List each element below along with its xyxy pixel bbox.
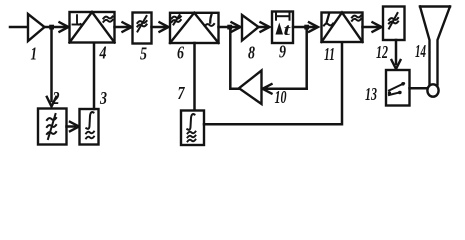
- svg-text:7: 7: [178, 83, 186, 103]
- svg-text:8: 8: [248, 43, 255, 63]
- svg-text:13: 13: [365, 84, 377, 104]
- svg-text:9: 9: [279, 42, 286, 62]
- wire 5 to 6: [152, 22, 169, 31]
- feedback wire to amp 10: [264, 88, 307, 91]
- wire 13 to CRT: [410, 87, 429, 90]
- svg-text:12: 12: [376, 42, 388, 62]
- svg-text:2: 2: [52, 88, 60, 108]
- feedback amplifier 10: [239, 71, 287, 108]
- arrowhead into 2: [47, 97, 56, 107]
- junction before amp 8: [227, 25, 232, 30]
- block 2: [38, 88, 67, 145]
- CRT indicator 14: [415, 7, 450, 97]
- arrowhead into 4: [60, 22, 69, 31]
- wire 11 to 12: [363, 22, 382, 31]
- mixer block 4: [70, 12, 115, 63]
- svg-text:3: 3: [99, 88, 107, 108]
- junction after delay 9: [304, 25, 309, 30]
- feedback wire from 10 to junction before 8: [230, 29, 239, 89]
- amplifier 8: [242, 15, 259, 63]
- wire 7 to phase detector 11: [204, 42, 342, 124]
- svg-text:6: 6: [177, 43, 184, 63]
- arrowhead into 11: [309, 22, 318, 31]
- amplifier 1: [28, 14, 45, 64]
- svg-text:1: 1: [31, 44, 38, 64]
- svg-text:5: 5: [140, 44, 147, 64]
- wire amp1 output: [45, 26, 67, 29]
- coherent oscillator block 7: [178, 83, 205, 145]
- wire 8 to 9: [259, 22, 270, 31]
- wire 12 down to 13: [392, 40, 401, 69]
- svg-text:10: 10: [275, 87, 287, 107]
- wire 9 to 11: [293, 26, 315, 29]
- wire 6 to 8: [219, 26, 239, 29]
- svg-text:11: 11: [324, 44, 335, 64]
- delay line block 9: [272, 12, 293, 62]
- phase detector block 11: [322, 13, 363, 65]
- arrowhead into 8: [232, 22, 241, 31]
- arrowhead into 10: [263, 84, 272, 93]
- block 3 heterodyne: [80, 88, 108, 145]
- junction after amp 1: [49, 25, 54, 30]
- wire input: [10, 26, 28, 29]
- wire 6 down to coherent oscillator 7: [193, 43, 196, 111]
- detector block 6: [170, 13, 219, 63]
- filter block 5: [133, 13, 152, 64]
- svg-text:4: 4: [99, 43, 107, 63]
- wire 2 to 3 with arrowhead: [67, 122, 80, 131]
- wire mixer 4 down to oscillator 3: [93, 43, 96, 110]
- filter block 12: [376, 7, 405, 63]
- wire junction down to block 2: [50, 27, 53, 101]
- sweep generator block 13: [365, 70, 410, 106]
- wire 4 to 5: [115, 22, 132, 31]
- svg-text:14: 14: [415, 41, 426, 61]
- feedback wire down from junction: [305, 27, 308, 89]
